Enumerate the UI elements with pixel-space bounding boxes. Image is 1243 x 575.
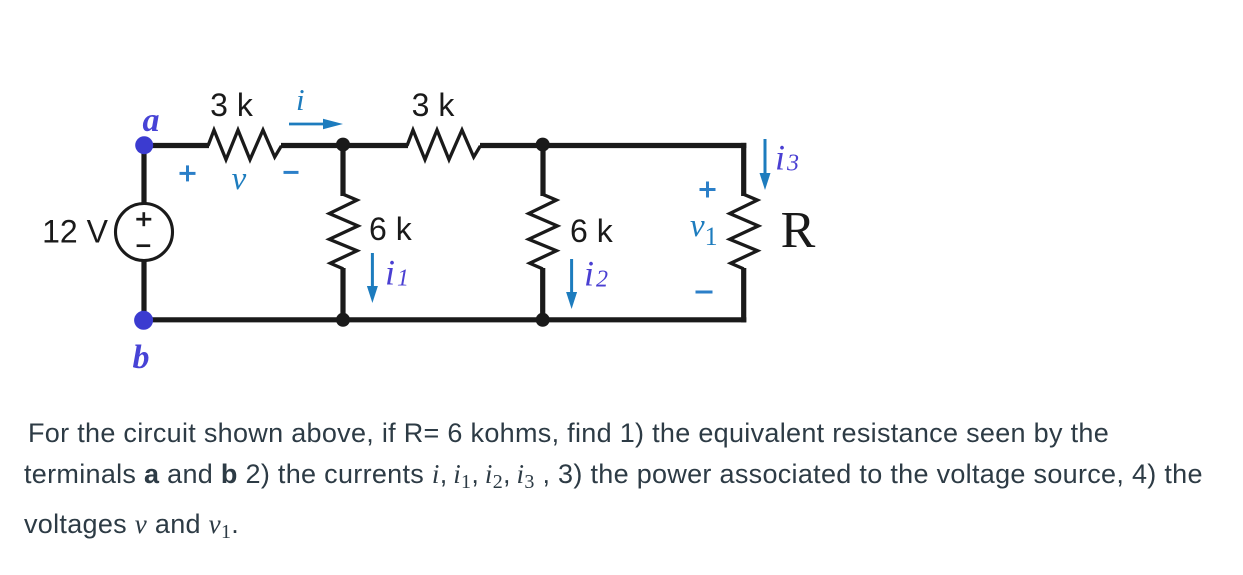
resistor 3k (right horizontal) bbox=[407, 130, 480, 160]
svg-text:b: b bbox=[133, 339, 150, 376]
wire: right branch top (corner to resistor R) bbox=[741, 143, 746, 196]
junction node 2 bottom bbox=[536, 313, 550, 327]
wire: source to node b bbox=[141, 259, 146, 320]
label + (of v1) bbox=[700, 182, 716, 198]
resistor 6k (second vertical) bbox=[529, 194, 558, 269]
svg-text:6 k: 6 k bbox=[369, 211, 413, 247]
svg-text:3 k: 3 k bbox=[210, 87, 254, 123]
current arrow i3 bbox=[760, 139, 771, 190]
wire: node 2 down to resistor 6k second bbox=[540, 145, 545, 196]
junction node 1 top bbox=[336, 138, 350, 152]
junction node 2 top bbox=[536, 138, 550, 152]
svg-text:i: i bbox=[296, 82, 305, 117]
svg-text:6 k: 6 k bbox=[570, 213, 614, 249]
wire bottom bbox=[144, 317, 746, 322]
wire: 6k first to bottom bbox=[340, 268, 345, 320]
svg-text:a: a bbox=[143, 102, 160, 139]
svg-text:i3: i3 bbox=[775, 138, 799, 178]
wire: node 1 down to resistor 6k first bbox=[340, 145, 345, 196]
svg-text:v: v bbox=[232, 161, 247, 197]
wire: resistor R to bottom-right corner bbox=[741, 268, 746, 322]
current arrow i1 bbox=[367, 253, 378, 303]
label minus (of v) bbox=[284, 171, 299, 174]
resistor 3k (left horizontal) bbox=[208, 130, 281, 160]
label + (of v) bbox=[180, 165, 196, 181]
problem statement text bbox=[0, 413, 1243, 553]
svg-text:3 k: 3 k bbox=[412, 87, 456, 123]
label minus (of v1) bbox=[696, 291, 713, 294]
wire: R2 to node 2 and to top-right corner bbox=[480, 143, 746, 148]
current arrow i bbox=[289, 119, 343, 129]
resistor R (right vertical) bbox=[730, 194, 759, 269]
junction node 1 bottom bbox=[336, 313, 350, 327]
svg-text:i1: i1 bbox=[385, 253, 409, 293]
svg-text:R: R bbox=[781, 202, 816, 259]
wire: R1 to node 1 bbox=[281, 143, 346, 148]
current arrow i2 bbox=[566, 259, 577, 309]
svg-text:12 V: 12 V bbox=[42, 214, 108, 250]
voltage source 12V circle bbox=[116, 204, 173, 261]
node b terminal dot bbox=[134, 311, 153, 330]
wire top left: node a to resistor R1 bbox=[144, 143, 209, 148]
label minus inside source bbox=[137, 244, 151, 247]
label + inside source bbox=[136, 212, 151, 226]
resistor 6k (first vertical) bbox=[329, 194, 358, 269]
svg-text:v1: v1 bbox=[690, 208, 718, 251]
node a terminal dot bbox=[135, 136, 153, 154]
wire: node 1 to resistor R2 bbox=[343, 143, 408, 148]
svg-text:i2: i2 bbox=[584, 254, 608, 294]
wire: left branch vertical (node a to source) bbox=[141, 145, 146, 205]
wire: 6k second to bottom bbox=[540, 268, 545, 320]
